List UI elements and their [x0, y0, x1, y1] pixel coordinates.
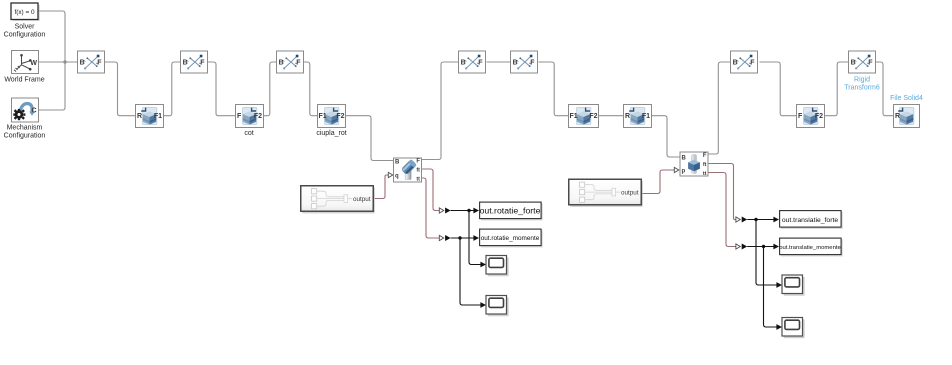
svg-text:out.translatie_forte: out.translatie_forte [782, 217, 839, 224]
svg-text:Transform6: Transform6 [844, 85, 880, 92]
svg-text:F: F [798, 113, 803, 120]
svg-text:p: p [682, 169, 686, 175]
svg-text:F1: F1 [319, 113, 327, 120]
svg-text:F2: F2 [815, 113, 823, 120]
svg-text:ft: ft [416, 167, 420, 173]
svg-text:W: W [30, 60, 37, 67]
svg-text:R: R [137, 113, 142, 120]
svg-text:out.translatie_momente: out.translatie_momente [779, 245, 841, 251]
svg-text:R: R [895, 113, 900, 120]
svg-text:out.rotatie_forte: out.rotatie_forte [480, 206, 541, 216]
svg-text:B: B [395, 159, 400, 165]
svg-text:R: R [625, 113, 630, 120]
svg-text:tt: tt [416, 176, 420, 182]
svg-text:F1: F1 [642, 113, 650, 120]
svg-text:F2: F2 [254, 113, 262, 120]
svg-text:F2: F2 [336, 113, 344, 120]
svg-text:F2: F2 [589, 113, 597, 120]
svg-text:Configuration: Configuration [4, 32, 46, 39]
svg-text:Solver: Solver [15, 24, 36, 31]
svg-text:F: F [703, 153, 707, 159]
svg-text:out.rotatie_momente: out.rotatie_momente [481, 235, 540, 242]
svg-text:Rigid: Rigid [854, 77, 870, 84]
svg-text:ft: ft [703, 162, 707, 168]
svg-text:q: q [395, 173, 399, 179]
svg-text:f(x) = 0: f(x) = 0 [14, 9, 35, 16]
svg-text:File Solid4: File Solid4 [890, 95, 923, 102]
svg-text:B: B [682, 155, 687, 161]
svg-text:F: F [237, 113, 242, 120]
svg-text:World Frame: World Frame [4, 77, 44, 84]
svg-text:ciupla_rot: ciupla_rot [316, 130, 346, 137]
svg-text:F: F [416, 158, 420, 164]
svg-text:F1: F1 [570, 113, 578, 120]
svg-text:tt: tt [703, 171, 707, 177]
svg-text:Configuration: Configuration [4, 133, 46, 140]
svg-text:cot: cot [244, 130, 253, 137]
svg-text:Mechanism: Mechanism [7, 125, 43, 132]
svg-text:C: C [31, 108, 36, 115]
svg-text:F1: F1 [154, 113, 162, 120]
